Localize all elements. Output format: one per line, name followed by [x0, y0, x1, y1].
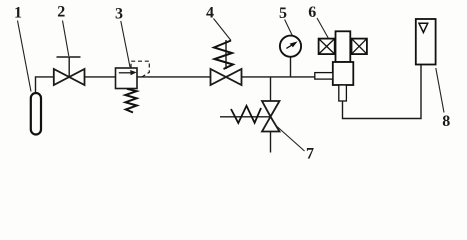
solenoid Y6 left coil: [319, 39, 335, 55]
solenoid Y6 valve body: [333, 62, 354, 85]
svg-text:4: 4: [206, 5, 214, 22]
regulator R3 internal arrow: [119, 70, 137, 75]
svg-text:7: 7: [306, 145, 314, 162]
svg-text:3: 3: [115, 6, 123, 23]
leader line to cylinder 1: [18, 21, 32, 92]
wire: solenoid outlet to flowmeter: [343, 65, 422, 119]
wire: tee drop to valve 7: [270, 77, 272, 101]
leader line to valve 7: [277, 127, 305, 152]
leader line to gauge 5: [285, 20, 293, 36]
wire: valve 2 to regulator 3: [85, 76, 116, 78]
valve V2 stem: [68, 57, 70, 77]
leader line to flowmeter 8: [436, 68, 444, 113]
regulator R3 body: [116, 68, 138, 89]
valve V7 spring: [231, 106, 261, 123]
pressure gauge G5 dial: [280, 36, 301, 57]
gas cylinder 1: [31, 93, 41, 135]
solenoid Y6 inlet port: [315, 73, 333, 80]
flowmeter F8 body: [416, 19, 436, 65]
regulator R3 feedback dashed line: [131, 61, 149, 77]
svg-text:1: 1: [14, 5, 22, 22]
svg-text:5: 5: [279, 5, 287, 22]
svg-text:8: 8: [442, 113, 450, 130]
wire: cylinder to valve 2: [36, 77, 54, 93]
svg-text:2: 2: [57, 4, 65, 21]
valve V4 bowtie: [211, 69, 242, 85]
flowmeter F8 float triangle: [419, 23, 428, 32]
leader line to valve 2: [63, 21, 69, 57]
solenoid Y6 right coil: [352, 39, 367, 55]
valve V4 stem: [225, 40, 227, 69]
solenoid Y6 armature stem: [336, 31, 351, 62]
pressure gauge G5 needle: [286, 41, 297, 48]
wire: valve 7 outlet down: [270, 132, 272, 153]
wire: pipe through regulator to valve 4: [116, 76, 211, 78]
valve V2 handle bar: [57, 56, 81, 58]
valve V7 upper triangle: [262, 101, 280, 117]
wire: gauge drop line: [290, 57, 292, 77]
wire: valve 4 to solenoid inlet: [242, 76, 316, 78]
leader line to regulator 3: [121, 21, 130, 67]
leader line to solenoid 6: [317, 18, 329, 39]
valve V7 lower triangle: [262, 117, 280, 132]
valve V4 spring: [214, 41, 233, 70]
leader line to valve 4: [214, 19, 232, 41]
svg-text:6: 6: [308, 4, 316, 21]
regulator R3 spring: [125, 89, 137, 113]
valve V2 bowtie: [54, 69, 85, 85]
solenoid Y6 outlet port: [339, 85, 347, 101]
valve V7 spring rod: [220, 116, 271, 118]
